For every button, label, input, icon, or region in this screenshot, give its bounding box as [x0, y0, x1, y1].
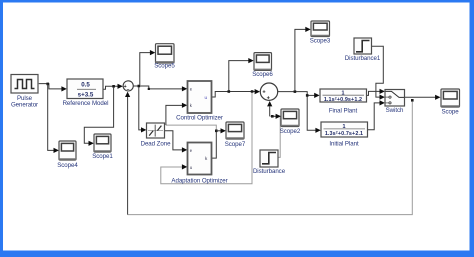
svg-text:Final Plant: Final Plant [329, 107, 358, 114]
disturbance1 step source [345, 38, 381, 62]
svg-text:Disturbance: Disturbance [253, 168, 286, 175]
final plant transfer function [320, 89, 367, 114]
svg-text:−: − [126, 87, 129, 93]
wire: Disturbance to sum2 bottom input and Scope2 [267, 101, 281, 157]
scope4 [57, 141, 78, 169]
switch [385, 90, 405, 114]
pulse generator [11, 75, 38, 109]
svg-text:Scope3: Scope3 [310, 38, 331, 45]
svg-text:Control Optimizer: Control Optimizer [176, 115, 223, 122]
initial plant transfer function [321, 122, 368, 147]
wire: Switch output to Scope [405, 95, 441, 102]
svg-text:1.3s2+0.7s+2.1: 1.3s2+0.7s+2.1 [325, 131, 363, 137]
sum node 2 [260, 83, 277, 102]
svg-text:Scope6: Scope6 [252, 71, 273, 78]
wire: branch up to Scope5 [140, 50, 156, 85]
wire: pulse generator to reference model [39, 83, 67, 92]
scope6 [252, 53, 273, 79]
svg-text:Adaptation Optimizer: Adaptation Optimizer [171, 177, 227, 184]
svg-text:Scope4: Scope4 [57, 162, 78, 169]
wire: u feedback to Adaptation Optimizer u input [161, 93, 252, 184]
svg-text:Scope: Scope [441, 108, 459, 115]
scope7 [225, 122, 246, 148]
svg-text:Scope5: Scope5 [154, 63, 175, 70]
wire: main feedback from switch output junction to sum1 [125, 92, 412, 215]
wire: dead zone output to Adaptation Optimizer e input [165, 131, 188, 153]
scope2 [280, 109, 301, 135]
wire: Control Optimizer u output to sum2 [212, 89, 260, 97]
svg-text:Disturbance1: Disturbance1 [345, 55, 381, 62]
scope1 [92, 134, 113, 160]
scope (far right) [441, 89, 460, 115]
svg-text:Reference Model: Reference Model [63, 100, 109, 107]
wire: branch down to Dead Zone [139, 87, 147, 133]
wire: branch down to Scope4 [48, 84, 59, 153]
wire: reference model output to sum1 [103, 84, 123, 90]
svg-text:1.1s2+0.9s+1.2: 1.1s2+0.9s+1.2 [324, 97, 362, 103]
reference model [63, 79, 109, 107]
control optimizer subsystem [176, 81, 223, 122]
svg-text:s+3.5: s+3.5 [78, 92, 94, 99]
scope5 [154, 44, 175, 70]
wire: sum2 output to plants [278, 90, 321, 133]
svg-text:Initial Plant: Initial Plant [329, 140, 359, 147]
svg-text:Dead Zone: Dead Zone [141, 141, 171, 148]
wire: Disturbance1 output to Switch input 2 [372, 46, 385, 99]
wire: Final Plant output to Switch input 1 [367, 89, 385, 96]
svg-text:Generator: Generator [11, 102, 38, 109]
wire: branch up to Scope6 [229, 58, 254, 90]
wire: sum1 output to Control Optimizer e input [134, 85, 188, 92]
dead zone [141, 123, 171, 148]
wire: Initial Plant output to Switch input 3 [368, 100, 385, 130]
wire: branch up to Scope3 [295, 27, 311, 91]
sum node 1 [123, 81, 133, 93]
disturbance step source [253, 150, 286, 175]
svg-text:Switch: Switch [386, 107, 404, 114]
scope3 [310, 21, 331, 45]
svg-text:Scope7: Scope7 [225, 141, 246, 148]
svg-text:0.5: 0.5 [81, 82, 90, 89]
wire: k feedback from Adaptation Optimizer to Control Optimizer and Scope7 [166, 103, 226, 158]
wire: branch down to Scope1 [84, 87, 113, 146]
svg-text:Scope1: Scope1 [92, 153, 113, 160]
svg-text:u: u [205, 95, 208, 100]
adaptation optimizer subsystem [171, 143, 227, 185]
svg-text:Scope2: Scope2 [280, 128, 301, 135]
